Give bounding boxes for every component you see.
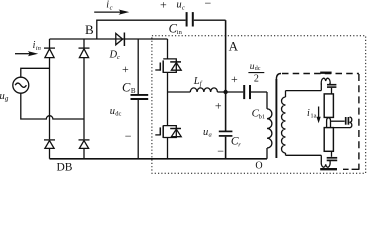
capacitor Cr bbox=[219, 130, 233, 132]
arrow i_c bbox=[94, 11, 120, 13]
svg-text:2: 2 bbox=[254, 74, 259, 85]
wire Cin to A drop bbox=[194, 19, 226, 21]
svg-text:1a: 1a bbox=[310, 113, 316, 120]
wire: source top lead bbox=[21, 68, 50, 77]
svg-text:c: c bbox=[117, 54, 120, 61]
svg-text:b1: b1 bbox=[259, 113, 266, 120]
svg-text:u: u bbox=[203, 127, 208, 138]
bridge rectifier DB : top rail bbox=[50, 38, 168, 40]
transformer secondary winding bbox=[285, 91, 287, 97]
wire: secondary bottom to lamp bbox=[286, 154, 322, 156]
diode bottom-right bbox=[79, 139, 90, 141]
arrow i_1a bbox=[318, 107, 320, 119]
svg-text:in: in bbox=[36, 45, 41, 52]
svg-text:dc: dc bbox=[255, 66, 261, 72]
svg-text:+: + bbox=[122, 62, 129, 76]
wire: Lf to node bbox=[217, 91, 225, 93]
lamp bottom filament bbox=[321, 161, 330, 167]
svg-text:B: B bbox=[131, 87, 136, 95]
arrow i_in bbox=[15, 53, 30, 55]
dash-dot lamp box bbox=[276, 74, 359, 170]
AC source ug bbox=[13, 77, 29, 93]
half-bridge rail drop bbox=[167, 39, 169, 59]
inductor Lf bbox=[190, 88, 217, 92]
wire: mid node to Lf bbox=[168, 91, 191, 93]
dotted box (inverter stage) bbox=[152, 36, 366, 173]
bridge left leg wire bbox=[49, 39, 51, 159]
svg-text:O: O bbox=[255, 161, 262, 172]
svg-text:u: u bbox=[110, 106, 115, 117]
diode bottom-left bbox=[44, 139, 55, 141]
transistor Q2 (lower MOSFET) bbox=[155, 125, 181, 137]
lamp top filament bbox=[321, 78, 330, 84]
bottom rail bbox=[50, 158, 268, 160]
svg-text:c: c bbox=[182, 4, 185, 11]
wire: middle return bbox=[333, 127, 349, 129]
wire: filament left leg bbox=[320, 84, 322, 91]
capacitor Cin bbox=[186, 12, 188, 26]
wire: A vertical drop bbox=[225, 20, 227, 131]
transistor Q1 (upper MOSFET) bbox=[155, 59, 181, 73]
svg-text:g: g bbox=[5, 95, 9, 103]
bridge right leg wire bbox=[83, 39, 85, 159]
wire: node to Cb1 bbox=[226, 91, 244, 93]
lamp middle connector bbox=[327, 118, 331, 128]
wire: middle to capacitor bbox=[331, 120, 345, 122]
middle filament coil bbox=[350, 117, 352, 128]
svg-text:+: + bbox=[215, 99, 222, 113]
diode Dc bbox=[116, 33, 123, 44]
wire: Q2 source to rail bbox=[167, 138, 169, 159]
svg-text:−: − bbox=[217, 144, 224, 158]
svg-text:u: u bbox=[176, 0, 181, 11]
transformer primary winding bbox=[266, 92, 268, 109]
svg-text:r: r bbox=[238, 141, 241, 148]
node B riser and top wire to Cin bbox=[97, 20, 186, 39]
wire: Q1 source to mid node bbox=[167, 72, 169, 125]
lamp bottom stub bbox=[331, 151, 333, 157]
svg-text:−: − bbox=[205, 0, 212, 10]
lamp top cap bar bbox=[320, 72, 331, 74]
wire: source bottom lead with crossover hop bbox=[21, 93, 84, 119]
svg-text:C: C bbox=[122, 81, 131, 95]
transformer core bbox=[275, 79, 277, 158]
capacitor CB bbox=[137, 39, 139, 94]
wire: bottom filament left leg bbox=[320, 155, 322, 161]
svg-text:A: A bbox=[229, 38, 239, 53]
lamp bottom capacitor bbox=[327, 157, 338, 159]
diode top-right bbox=[79, 47, 90, 49]
svg-text:+: + bbox=[231, 72, 238, 86]
wire: secondary top to lamp bbox=[286, 90, 322, 92]
svg-text:c: c bbox=[110, 4, 113, 11]
node dot bbox=[223, 90, 227, 94]
middle heating capacitor bbox=[345, 117, 347, 125]
svg-text:+: + bbox=[160, 0, 167, 11]
lamp tube lower bbox=[324, 128, 333, 152]
lamp tube upper bbox=[324, 94, 333, 118]
lamp top capacitor bbox=[327, 84, 336, 86]
svg-text:DB: DB bbox=[57, 161, 73, 173]
svg-text:in: in bbox=[177, 29, 183, 36]
svg-text:−: − bbox=[125, 129, 132, 143]
svg-text:a: a bbox=[209, 132, 212, 139]
capacitor Cb1 bbox=[243, 85, 245, 99]
diode top-left bbox=[44, 47, 55, 49]
svg-text:dc: dc bbox=[115, 111, 121, 118]
lamp bottom cap bar bbox=[320, 168, 337, 170]
svg-text:f: f bbox=[200, 80, 203, 88]
svg-text:B: B bbox=[85, 22, 94, 37]
